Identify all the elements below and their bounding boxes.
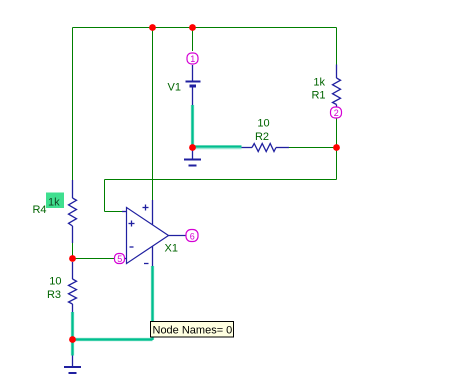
svg-text:5: 5 — [117, 254, 122, 264]
svg-text:2: 2 — [334, 108, 339, 118]
svg-text:R4: R4 — [32, 204, 46, 216]
svg-text:R1: R1 — [311, 90, 325, 102]
svg-text:R2: R2 — [255, 131, 269, 143]
svg-text:1k: 1k — [313, 77, 325, 89]
svg-text:R3: R3 — [47, 289, 61, 301]
svg-text:1k: 1k — [48, 197, 60, 209]
svg-text:Node Names= 0: Node Names= 0 — [153, 325, 233, 337]
svg-text:10: 10 — [257, 118, 269, 130]
svg-text:V1: V1 — [168, 82, 181, 94]
svg-text:1: 1 — [190, 54, 195, 64]
svg-text:10: 10 — [49, 276, 61, 288]
svg-text:6: 6 — [190, 231, 195, 241]
svg-text:X1: X1 — [165, 243, 178, 255]
